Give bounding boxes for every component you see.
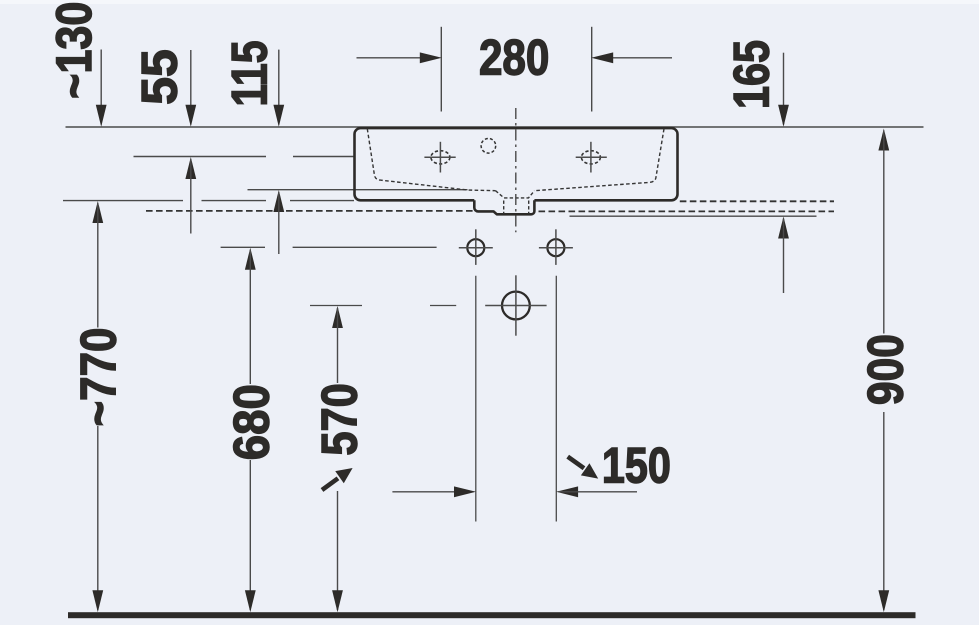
dimension 680 <box>245 248 256 613</box>
svg-text:680: 680 <box>224 384 280 460</box>
dimension 150 arrows <box>392 486 637 497</box>
vertical centerline (dash-dot) <box>515 108 517 232</box>
svg-text:165: 165 <box>724 40 780 109</box>
siphon outlet circle <box>485 275 546 335</box>
svg-text:115: 115 <box>222 41 278 107</box>
dimension ~770 <box>92 201 103 612</box>
sink-bottom level line (left of basin) <box>63 200 354 202</box>
rim level reference line <box>66 126 924 128</box>
svg-text:150: 150 <box>602 437 671 493</box>
dimension 570 <box>332 306 343 612</box>
right mounting hole <box>539 229 573 265</box>
svg-text:900: 900 <box>858 334 914 405</box>
left faucet hole <box>424 142 455 173</box>
left mounting hole <box>459 229 493 265</box>
lighter strip at very top <box>0 0 979 4</box>
svg-text:280: 280 <box>479 29 550 85</box>
right faucet hole <box>576 142 607 173</box>
dimension 900 <box>878 129 889 613</box>
dimension 165 <box>778 53 789 293</box>
dimension 280 arrows <box>357 52 673 63</box>
hidden dashed line at 201 (right of basin) <box>680 200 834 202</box>
overflow hole <box>481 139 496 154</box>
drain trap outline <box>474 200 534 214</box>
280 dimension extension lines <box>441 27 591 112</box>
long hidden dashed line at 211 <box>146 210 834 213</box>
svg-text:570: 570 <box>312 383 368 456</box>
115-level reference line <box>248 189 468 191</box>
drain hidden vertical edges <box>504 201 529 214</box>
dimension ~130 <box>96 50 107 127</box>
55-level reference line <box>134 156 355 158</box>
150 dimension extension lines <box>476 276 557 522</box>
siphon-level reference segments <box>310 305 456 307</box>
svg-text:55: 55 <box>132 49 188 105</box>
floor line <box>68 612 916 618</box>
basin interior hidden contour (right) <box>534 129 664 191</box>
washbasin outer outline <box>355 128 678 200</box>
dimension 115 <box>273 50 284 254</box>
drain recess hidden (dashed trapezoid) <box>496 191 535 198</box>
165-level solid reference line (right) <box>570 215 817 217</box>
long reference line at mounting-hole level <box>293 246 437 248</box>
diagonal arrow for 150 <box>568 457 603 485</box>
basin interior hidden contour (left) <box>367 129 495 191</box>
dimension 55 <box>185 50 196 234</box>
svg-text:~770: ~770 <box>70 328 126 427</box>
680-level short reference line <box>221 246 265 248</box>
diagonal arrow for 570 <box>322 462 357 490</box>
svg-text:~130: ~130 <box>46 2 102 99</box>
